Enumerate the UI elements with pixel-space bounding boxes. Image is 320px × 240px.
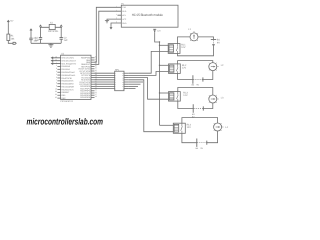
svg-text:1: 1 <box>115 72 116 75</box>
svg-text:7: 7 <box>56 79 57 82</box>
svg-text:RA3/AN3/Vref+: RA3/AN3/Vref+ <box>62 74 77 77</box>
12V terminal label <box>157 30 161 33</box>
svg-text:RA4/T0CKI: RA4/T0CKI <box>62 77 73 80</box>
L2 label <box>221 64 224 67</box>
svg-text:28: 28 <box>95 95 97 98</box>
svg-text:OSC1/CLKIN: OSC1/CLKIN <box>62 57 75 60</box>
svg-text:9V: 9V <box>217 41 220 44</box>
svg-text:9V: 9V <box>197 83 200 86</box>
svg-text:RE0/AN5/RD: RE0/AN5/RD <box>62 83 75 86</box>
capacitor C3 (decoupling) <box>29 31 32 43</box>
ground rail under crystal <box>31 42 61 44</box>
wires loop 1 <box>178 37 214 56</box>
+5V label <box>10 19 14 22</box>
svg-text:MCLR/Vpp/THV: MCLR/Vpp/THV <box>62 62 77 65</box>
U1 left pin stubs, names and numbers <box>51 56 76 100</box>
U1 label <box>61 53 65 56</box>
svg-text:TXD: TXD <box>122 6 126 9</box>
relay RL3 <box>169 92 181 102</box>
RP1 label <box>115 69 120 72</box>
lamp L4 <box>214 123 224 131</box>
svg-text:RXD: RXD <box>122 10 127 13</box>
svg-text:9: 9 <box>56 84 57 87</box>
wire HC05 TXD to U1 RX <box>95 7 118 62</box>
svg-text:B3: B3 <box>192 113 195 116</box>
svg-text:B4: B4 <box>196 147 199 150</box>
HC-05 title text <box>132 13 163 17</box>
ground symbol (HC05) <box>105 21 109 23</box>
B2 labels <box>192 83 200 86</box>
wire rail to RL4 coil <box>160 124 174 126</box>
svg-text:PIC16F877A: PIC16F877A <box>60 100 73 103</box>
B1 labels <box>217 38 221 44</box>
svg-text:RB0/INT: RB0/INT <box>62 91 71 94</box>
crystal branch left wire <box>39 25 41 43</box>
relay RL2 <box>169 64 181 74</box>
C2 label <box>64 37 69 42</box>
C3 label <box>34 37 39 42</box>
wire rail to RL2 coil <box>160 64 169 66</box>
wires loop 3 <box>178 88 213 109</box>
svg-text:RB1: RB1 <box>62 94 67 97</box>
svg-text:4: 4 <box>56 70 57 73</box>
svg-text:34: 34 <box>55 93 57 96</box>
svg-text:L4: L4 <box>225 126 228 129</box>
svg-text:10: 10 <box>55 87 57 90</box>
battery B1 <box>211 39 216 44</box>
svg-text:HC 05 Bluetooth module: HC 05 Bluetooth module <box>132 13 163 17</box>
svg-text:+5V: +5V <box>10 19 14 22</box>
capacitor C2 <box>60 38 63 40</box>
svg-text:VCC: VCC <box>122 18 127 21</box>
power +5V terminal top-left <box>7 20 9 23</box>
lamp L1 <box>190 31 198 41</box>
svg-text:CRYSTAL: CRYSTAL <box>48 30 59 33</box>
crystal branch right wire <box>60 25 62 43</box>
resistor pack RP1 box <box>115 71 124 91</box>
svg-text:1nF: 1nF <box>64 39 69 42</box>
capacitor C1 <box>39 38 42 40</box>
svg-text:10k: 10k <box>11 38 16 41</box>
svg-text:12V: 12V <box>183 94 188 97</box>
svg-text:RA2/AN2/Vref-: RA2/AN2/Vref- <box>62 71 76 74</box>
L4 label <box>225 126 228 129</box>
resistor R1 <box>7 23 13 43</box>
crystal X1 <box>40 24 62 29</box>
svg-text:RA0/AN0: RA0/AN0 <box>62 65 71 68</box>
R1 value label <box>11 35 16 41</box>
svg-text:RE2/AN7/CS: RE2/AN7/CS <box>62 88 75 91</box>
svg-text:R1: R1 <box>11 35 15 38</box>
battery B3 <box>193 104 203 112</box>
svg-text:16: 16 <box>122 72 124 75</box>
wires loop 2 <box>178 61 213 80</box>
wire rail to RL1 coil <box>160 44 169 46</box>
HC-05 module box <box>121 5 178 27</box>
svg-text:3: 3 <box>116 13 117 16</box>
U1 right pin stubs, names and numbers <box>79 56 129 100</box>
RL3 labels <box>183 92 188 97</box>
wires loop 4 <box>182 118 218 143</box>
wire RL1 coil to respack row0 <box>129 51 168 73</box>
L3 label <box>221 97 224 100</box>
RL2 labels <box>182 64 187 69</box>
svg-text:B2: B2 <box>192 83 195 86</box>
bus wires U1 to RP1 <box>95 72 115 74</box>
power +5V terminal (decoupling branch) <box>30 29 32 31</box>
svg-text:KEY: KEY <box>122 14 127 17</box>
wire HC05 GND to power terminal <box>111 23 118 26</box>
svg-text:3: 3 <box>56 67 57 70</box>
wire RL2 coil to respack row1 <box>129 72 169 76</box>
U1 part number label <box>60 100 73 103</box>
battery B2 <box>193 75 203 83</box>
power terminal (down arrow) <box>110 26 112 28</box>
B3 labels <box>192 113 195 119</box>
ground symbol <box>48 43 53 47</box>
svg-text:9V: 9V <box>192 116 195 119</box>
lamp L2 <box>209 63 219 71</box>
HC-05 pin numbers <box>116 5 117 24</box>
wire RL3 coil to respack row2 <box>129 78 169 100</box>
svg-text:1: 1 <box>56 61 57 64</box>
relay RL4 <box>173 123 185 133</box>
C1 label <box>35 37 40 42</box>
svg-text:13: 13 <box>55 56 57 59</box>
svg-text:12V: 12V <box>182 67 187 70</box>
svg-text:L2: L2 <box>221 64 224 67</box>
RP1 pin numbers <box>115 72 124 90</box>
svg-text:L3: L3 <box>221 97 224 100</box>
B4 labels <box>196 147 204 150</box>
svg-text:GND: GND <box>122 22 127 25</box>
svg-text:14: 14 <box>55 58 57 61</box>
L1 label <box>188 28 191 31</box>
svg-text:1nF: 1nF <box>35 39 40 42</box>
HC-05 ref label <box>121 2 124 5</box>
HC-05 pin names <box>122 6 127 25</box>
relay RL1 <box>168 44 180 54</box>
X1 labels <box>48 22 59 33</box>
RL1 labels <box>181 44 186 49</box>
wire HC05 RXD to U1 TX <box>95 11 118 64</box>
svg-text:9V: 9V <box>201 147 204 150</box>
RP1 right stubs <box>124 72 129 74</box>
svg-text:RD5/PSP5: RD5/PSP5 <box>80 96 91 99</box>
wire RL4 coil to respack row3 <box>129 80 174 132</box>
HC-05 pin stubs <box>118 7 122 23</box>
svg-text:12V: 12V <box>181 46 186 49</box>
svg-text:L1: L1 <box>188 28 191 31</box>
svg-text:6: 6 <box>56 76 57 79</box>
svg-text:8: 8 <box>56 82 57 85</box>
svg-text:RE1/AN6/WR: RE1/AN6/WR <box>62 85 75 88</box>
+12V terminal below HC05 <box>153 29 159 42</box>
wire HC05 VCC with ground <box>107 19 118 21</box>
svg-text:12V: 12V <box>187 126 192 129</box>
svg-text:RA1/AN1: RA1/AN1 <box>62 68 71 71</box>
lamp L3 <box>209 95 219 103</box>
+12V rail vertical <box>159 41 160 125</box>
svg-text:35: 35 <box>55 96 57 99</box>
feeder wires respack rows 4-7 <box>129 82 143 89</box>
wire rail to RL3 coil <box>160 92 169 94</box>
microcontroller U1 box <box>61 55 91 99</box>
svg-text:33: 33 <box>55 90 57 93</box>
svg-text:12V: 12V <box>157 30 161 33</box>
svg-text:microcontrollerslab.com: microcontrollerslab.com <box>27 116 104 126</box>
battery B4 <box>197 139 207 147</box>
svg-text:5: 5 <box>56 73 57 76</box>
svg-text:2: 2 <box>56 64 57 67</box>
svg-text:RA5/AN4/SS: RA5/AN4/SS <box>62 80 74 83</box>
terminal MCLR node <box>13 42 16 44</box>
svg-text:OSC2/CLKOUT: OSC2/CLKOUT <box>62 59 77 62</box>
RL4 labels <box>187 124 192 129</box>
